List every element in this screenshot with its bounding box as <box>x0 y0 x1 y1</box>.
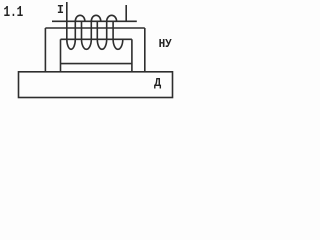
yoke inner right edge <box>131 39 133 72</box>
coil top rail <box>52 20 137 22</box>
coil turn 3 upper dome <box>107 15 117 21</box>
coil turn 1 upper dome <box>75 15 85 21</box>
coil lower cup 1 <box>67 21 76 49</box>
coil lower cup 4 <box>113 39 123 49</box>
yoke inner left edge <box>60 39 62 72</box>
coil lower cup 3 <box>97 39 106 49</box>
yoke inner cutout top edge <box>61 63 132 65</box>
wire lead 2 (right current lead) <box>125 5 127 21</box>
figure number label 1.1 <box>4 4 24 21</box>
coil turn 2 upper dome <box>91 15 101 21</box>
coil crossing verticals <box>75 21 113 39</box>
coil lower cup 2 <box>82 39 92 49</box>
svg-text:Д: Д <box>154 76 162 90</box>
coil bottom rail <box>61 38 132 40</box>
yoke bridge top edge <box>45 27 144 29</box>
part D rectangle <box>19 72 173 98</box>
yoke outer right edge <box>144 28 146 72</box>
svg-text:I: I <box>57 4 64 17</box>
yoke outer left edge <box>44 28 46 72</box>
svg-text:НУ: НУ <box>159 36 172 51</box>
wire lead 1 (left current lead) <box>66 2 68 21</box>
label NU (magnetizing device) <box>159 36 172 51</box>
svg-text:1.1: 1.1 <box>4 4 24 21</box>
